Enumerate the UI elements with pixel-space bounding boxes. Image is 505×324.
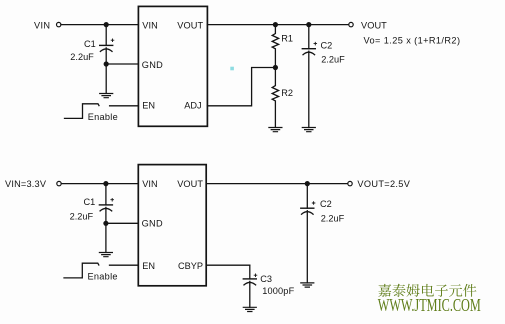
capacitor C1 (bottom) curved plate (100, 208, 112, 211)
capacitor C2 (bottom) plus polarity (312, 202, 315, 205)
svg-text:VIN: VIN (34, 20, 50, 30)
op IC U1 box (138, 6, 207, 126)
terminal VOUT (top) (349, 22, 353, 26)
svg-text:C2: C2 (321, 40, 333, 50)
capacitor C3 flat plate (243, 278, 256, 280)
capacitor C1 (top) curved plate (100, 49, 112, 52)
junction VOUT/C2 (top) (306, 22, 311, 27)
capacitor C2 (bottom) curved plate (302, 212, 314, 215)
svg-text:2.2uF: 2.2uF (70, 212, 94, 222)
svg-text:Enable: Enable (88, 112, 118, 122)
capacitor C1 (bottom) lead lower (105, 207, 107, 223)
ground C3 (243, 307, 256, 311)
junction GND/C1 (bottom) (103, 221, 108, 226)
ground C2 (top) (302, 128, 315, 132)
op IC U2 box (138, 165, 206, 286)
svg-text:C2: C2 (320, 199, 332, 209)
svg-text:GND: GND (142, 60, 163, 70)
svg-text:VOUT=2.5V: VOUT=2.5V (357, 179, 410, 189)
svg-text:2.2uF: 2.2uF (70, 52, 94, 62)
svg-text:EN: EN (142, 261, 155, 271)
wire GND pin (bottom) (106, 222, 138, 224)
terminal VIN (top) (57, 22, 61, 26)
capacitor C1 (top) flat plate (100, 44, 113, 46)
resistor R2 (272, 68, 278, 128)
svg-text:EN: EN (142, 101, 155, 111)
wire VOUT net (bottom) (206, 183, 348, 185)
capacitor C1 (bottom) lead upper (105, 184, 107, 205)
ground C1 (bottom) (99, 253, 112, 257)
svg-text:C3: C3 (260, 274, 272, 284)
wire EN pin (bottom) (110, 264, 139, 266)
junction VOUT/C2 (bottom) (305, 181, 310, 186)
capacitor C1 (top) plus polarity (111, 39, 114, 42)
svg-text:Enable: Enable (88, 271, 118, 281)
svg-text:VOUT: VOUT (361, 20, 387, 30)
svg-text:R2: R2 (281, 88, 293, 98)
capacitor C2 (top) lead upper (308, 25, 310, 49)
capacitor C1 (bottom) flat plate (99, 204, 112, 206)
watermark chinese 嘉泰姆电子元件 (378, 284, 476, 297)
svg-text:VIN=3.3V: VIN=3.3V (5, 179, 47, 189)
svg-text:C1: C1 (84, 197, 96, 207)
svg-text:VIN: VIN (142, 179, 158, 189)
enable step source (bottom) (64, 263, 99, 278)
wire VIN input (bottom) (61, 183, 138, 185)
wire VIN input (top) (61, 24, 138, 26)
junction VIN/C1 (bottom) (103, 181, 108, 186)
svg-text:C1: C1 (84, 39, 96, 49)
junction R1/R2/ADJ (273, 65, 278, 70)
svg-text:VOUT: VOUT (177, 179, 203, 189)
terminal VOUT (bottom) (348, 181, 352, 185)
wire ADJ feedback (207, 68, 275, 106)
wire GND pin (top) (106, 63, 138, 65)
capacitor C2 (bottom) lead upper (306, 184, 308, 209)
resistor R1 (272, 25, 278, 68)
svg-text:ADJ: ADJ (184, 101, 201, 111)
svg-text:GND: GND (142, 218, 163, 228)
capacitor C3 lead lower (249, 281, 251, 307)
svg-text:2.2uF: 2.2uF (321, 54, 345, 64)
svg-text:WWW.JTMIC.COM: WWW.JTMIC.COM (378, 295, 481, 315)
svg-text:VOUT: VOUT (177, 20, 203, 30)
junction VOUT/R1 (top) (273, 22, 278, 27)
svg-text:CBYP: CBYP (178, 261, 203, 271)
svg-text:Vo= 1.25 x (1+R1/R2): Vo= 1.25 x (1+R1/R2) (364, 36, 461, 46)
enable step source (top) (65, 104, 100, 119)
capacitor C2 (bottom) flat plate (301, 207, 314, 209)
svg-text:VIN: VIN (142, 20, 158, 30)
capacitor C1 (top) lead upper (105, 25, 107, 46)
svg-text:2.2uF: 2.2uF (321, 213, 345, 223)
capacitor C2 (bottom) lead lower (306, 211, 308, 283)
capacitor C2 (top) flat plate (302, 48, 315, 50)
wire EN pin (top) (110, 105, 139, 107)
capacitor C2 (top) lead lower (308, 51, 310, 127)
ground R2 (269, 128, 282, 132)
wire VOUT net (top) (207, 24, 348, 26)
junction GND/C1 (top) (104, 61, 109, 66)
ground C2 (bottom) (301, 283, 314, 287)
artifact cyan dot (230, 67, 234, 71)
svg-text:1000pF: 1000pF (262, 286, 294, 296)
terminal VIN (bottom) (57, 181, 61, 185)
junction VIN/C1 (top) (104, 22, 109, 27)
capacitor C3 curved plate (244, 282, 256, 285)
capacitor C1 (top) lead lower (105, 48, 107, 64)
capacitor C2 (top) plus polarity (314, 42, 317, 45)
capacitor C2 (top) curved plate (303, 52, 315, 55)
capacitor C3 plus polarity (254, 274, 257, 277)
svg-text:R1: R1 (281, 34, 293, 44)
wire CBYP pin (206, 264, 250, 266)
capacitor C3 lead upper (249, 265, 251, 279)
wire C1 to ground (top) (105, 64, 107, 93)
ground C1 (top) (100, 94, 113, 98)
capacitor C1 (bottom) plus polarity (111, 198, 114, 201)
wire C1 to ground (bottom) (105, 223, 107, 252)
